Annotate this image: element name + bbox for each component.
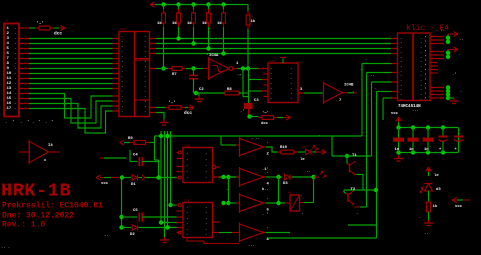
svg-text:IC5: IC5: [269, 60, 275, 63]
svg-text:.: .: [121, 45, 123, 49]
svg-text:1k: 1k: [217, 21, 222, 26]
svg-text:.: .: [290, 77, 292, 81]
svg-text:..: ..: [306, 170, 311, 174]
svg-text:vcc: vcc: [391, 112, 399, 116]
svg-text:.: .: [270, 87, 272, 91]
svg-text:.: .: [460, 90, 462, 94]
svg-text:': ': [51, 120, 53, 125]
svg-text:.: .: [121, 85, 123, 89]
svg-text:IC4A: IC4A: [209, 54, 219, 58]
svg-text:.: .: [205, 152, 207, 156]
svg-text:.: .: [205, 158, 207, 162]
svg-text:.: .: [14, 67, 16, 71]
svg-text:..: ..: [459, 38, 464, 42]
svg-text:1k: 1k: [157, 21, 162, 26]
svg-text:.: .: [121, 60, 123, 64]
svg-text:.: .: [14, 32, 16, 36]
svg-text:1k: 1k: [172, 21, 177, 26]
svg-text:.: .: [45, 121, 47, 125]
svg-text:D1: D1: [131, 183, 136, 187]
svg-text:.: .: [14, 27, 16, 31]
svg-text:. ': . ': [420, 83, 427, 88]
svg-text:D2: D2: [130, 233, 135, 237]
svg-text:11: 11: [7, 77, 12, 81]
svg-text:..: ..: [370, 74, 375, 78]
svg-text:.: .: [400, 98, 402, 102]
svg-text:.: .: [144, 90, 146, 94]
svg-text:1n: 1n: [395, 148, 400, 152]
svg-text:.: .: [290, 92, 292, 96]
svg-text:R7: R7: [172, 73, 177, 77]
svg-text:15: 15: [7, 97, 12, 101]
svg-text:.1': .1': [262, 167, 269, 172]
svg-text:.: .: [121, 75, 123, 79]
svg-text:vcc: vcc: [101, 182, 109, 186]
svg-text:.: .: [418, 216, 420, 220]
svg-text:.: .: [186, 152, 188, 156]
svg-text:R9: R9: [128, 137, 133, 141]
svg-text:.: .: [400, 46, 402, 50]
svg-text:...: ...: [412, 109, 419, 113]
svg-text:. ': . ': [420, 78, 427, 83]
svg-text:.: .: [144, 75, 146, 79]
svg-text:.': .': [452, 72, 457, 77]
svg-text:1k: 1k: [251, 19, 256, 24]
svg-text:.: .: [144, 110, 146, 114]
svg-text:.: .: [267, 226, 269, 230]
svg-text:.: .: [270, 92, 272, 96]
svg-text:.: .: [290, 97, 292, 101]
svg-text:. ..: . ..: [251, 137, 260, 141]
svg-text:. ': . ': [420, 54, 427, 59]
svg-text:.: .: [186, 228, 188, 232]
svg-text:.: .: [270, 97, 272, 101]
svg-text:.: .: [144, 55, 146, 59]
svg-text:I4: I4: [48, 144, 53, 148]
svg-text:.: .: [14, 92, 16, 96]
svg-text:.: .: [205, 217, 207, 221]
svg-text:. ': . ': [420, 73, 427, 78]
svg-text:. ': . ': [420, 45, 427, 50]
svg-text:.: .: [290, 67, 292, 71]
svg-text:T2: T2: [351, 188, 356, 192]
svg-text:.: .: [14, 42, 16, 46]
svg-text:.: .: [318, 134, 320, 138]
svg-text:.: .: [270, 67, 272, 71]
svg-text:.: .: [121, 110, 123, 114]
svg-text:vcc: vcc: [455, 205, 463, 209]
svg-text:.: .: [121, 40, 123, 44]
svg-text:.: .: [121, 95, 123, 99]
svg-text:.: .: [121, 100, 123, 104]
svg-text:.: .: [121, 50, 123, 54]
svg-text:.: .: [14, 97, 16, 101]
svg-text:.: .: [400, 55, 402, 59]
svg-text:.: .: [186, 158, 188, 162]
svg-text:.,: .,: [237, 73, 242, 77]
svg-text:. ': . ': [420, 87, 427, 92]
svg-text:12: 12: [7, 82, 12, 86]
svg-text:C4: C4: [133, 154, 138, 158]
svg-text:': ': [38, 120, 40, 125]
svg-text:.. .: .. .: [1, 246, 10, 250]
svg-text:.: .: [121, 90, 123, 94]
svg-text:.: .: [270, 77, 272, 81]
svg-text:Dne: 30.12.2022: Dne: 30.12.2022: [2, 212, 74, 221]
svg-text:.: .: [32, 121, 34, 125]
svg-text:. ': . ': [262, 212, 269, 217]
svg-text:.: .: [186, 170, 188, 174]
svg-text:. ': . ': [420, 64, 427, 69]
svg-text:.: .: [374, 87, 376, 91]
svg-text:R10: R10: [280, 146, 288, 150]
svg-text:. ': . ': [420, 68, 427, 73]
svg-text:.: .: [14, 77, 16, 81]
svg-text:.: .: [400, 65, 402, 69]
svg-text:.: .: [270, 82, 272, 86]
svg-text:. ': . ': [420, 40, 427, 45]
svg-text:.: .: [186, 206, 188, 210]
svg-text:D3: D3: [283, 182, 288, 186]
svg-text:.: .: [400, 60, 402, 64]
svg-text:.': .': [240, 109, 245, 114]
svg-text:C3: C3: [254, 99, 259, 103]
svg-text:.: .: [14, 57, 16, 61]
svg-text:10: 10: [7, 72, 12, 76]
svg-text:R8: R8: [227, 88, 232, 92]
svg-text:.: .: [205, 222, 207, 226]
svg-text:.: .: [144, 95, 146, 99]
svg-text:. ': . ': [420, 59, 427, 64]
svg-text:. ': . ': [420, 97, 427, 102]
svg-text:K1: K1: [288, 192, 292, 195]
svg-text:.: .: [400, 37, 402, 41]
svg-text:.: .: [186, 233, 188, 237]
svg-text:.: .: [14, 62, 16, 66]
svg-text:dcc: dcc: [54, 31, 62, 37]
svg-text:.: .: [121, 80, 123, 84]
svg-text:dcc: dcc: [184, 110, 192, 116]
svg-text:IC1: IC1: [184, 145, 190, 148]
svg-text:K1: K1: [302, 146, 306, 149]
svg-text:.: .: [144, 85, 146, 89]
svg-text:C2: C2: [199, 88, 204, 92]
svg-text:.: .: [121, 70, 123, 74]
svg-text:1k: 1k: [202, 21, 207, 26]
svg-text:': ': [206, 53, 208, 58]
svg-text:.: .: [400, 88, 402, 92]
svg-text:.: .: [14, 82, 16, 86]
svg-text:.: .: [121, 105, 123, 109]
svg-text:.: .: [14, 102, 16, 106]
svg-text:.: .: [186, 211, 188, 215]
svg-text:.: .: [14, 47, 16, 51]
svg-text:le: le: [434, 173, 439, 178]
svg-text:.: .: [205, 228, 207, 232]
svg-text:. ..: . ..: [436, 29, 445, 33]
svg-text:T1: T1: [352, 154, 357, 158]
svg-text:IC2: IC2: [120, 28, 126, 31]
svg-text:'-': '-': [262, 111, 269, 116]
svg-text:Rev.: 1.0: Rev.: 1.0: [2, 221, 45, 230]
svg-text:.: .: [144, 40, 146, 44]
svg-text:.: .: [400, 69, 402, 73]
svg-text:'-': '-': [168, 100, 176, 106]
svg-text:.: .: [356, 212, 358, 216]
svg-text:.: .: [14, 52, 16, 56]
svg-text:.: .: [270, 72, 272, 76]
svg-text:.: .: [144, 65, 146, 69]
svg-text:.: .: [144, 50, 146, 54]
svg-text:.: .: [144, 105, 146, 109]
svg-text:. ': . ': [420, 92, 427, 97]
svg-text:.: .: [400, 51, 402, 55]
svg-text:.: .: [400, 41, 402, 45]
svg-text:.: .: [205, 206, 207, 210]
svg-text:C5: C5: [133, 209, 138, 213]
svg-text:.: .: [400, 74, 402, 78]
svg-text:'-': '-': [36, 21, 44, 27]
svg-text:.: .: [186, 222, 188, 226]
svg-text:.: .: [144, 60, 146, 64]
svg-text:.: .: [186, 164, 188, 168]
svg-text:.: .: [14, 72, 16, 76]
svg-text:.: .: [144, 100, 146, 104]
svg-text:.: .: [365, 58, 367, 62]
svg-text:..: ..: [104, 234, 109, 238]
svg-text:13: 13: [7, 87, 12, 91]
svg-text:.: .: [302, 212, 304, 216]
svg-text:.: .: [458, 53, 460, 57]
svg-text:1k: 1k: [187, 21, 192, 26]
svg-text:': ': [27, 120, 29, 125]
svg-text:.: .: [267, 197, 269, 201]
svg-text:.: .: [290, 72, 292, 76]
svg-text:.: .: [186, 217, 188, 221]
svg-text:. ': . ': [420, 50, 427, 55]
svg-text:.: .: [400, 84, 402, 88]
svg-text:.: .: [205, 233, 207, 237]
svg-text:1n: 1n: [424, 148, 429, 152]
svg-text:...: ...: [248, 244, 255, 248]
svg-text:le: le: [300, 157, 305, 162]
svg-text:.: .: [267, 141, 269, 145]
svg-text:': ': [12, 120, 14, 125]
svg-text:X1: X1: [5, 20, 9, 23]
svg-text:. ': . ': [420, 36, 427, 41]
svg-text:.: .: [226, 188, 228, 192]
svg-text:dcc: dcc: [261, 121, 269, 126]
svg-text:.: .: [205, 164, 207, 168]
svg-text:HRK-1B: HRK-1B: [1, 181, 71, 202]
svg-text:.: .: [205, 176, 207, 180]
svg-text:17: 17: [7, 107, 12, 111]
svg-text:IC3: IC3: [184, 200, 190, 203]
svg-text:..: ..: [424, 232, 429, 236]
svg-text:.: .: [144, 80, 146, 84]
svg-text:1n: 1n: [409, 148, 414, 152]
svg-text:.: .: [352, 90, 354, 94]
svg-text:.: .: [144, 45, 146, 49]
svg-text:.: .: [121, 35, 123, 39]
svg-text:.: .: [5, 121, 7, 125]
svg-text:.: .: [186, 176, 188, 180]
svg-text:.: .: [400, 79, 402, 83]
svg-text:.: .: [144, 70, 146, 74]
svg-text:.: .: [14, 37, 16, 41]
svg-text:.: .: [121, 55, 123, 59]
svg-text:.: .: [205, 170, 207, 174]
svg-text:.: .: [400, 93, 402, 97]
svg-text:IC4B: IC4B: [344, 84, 354, 88]
svg-text:.: .: [14, 107, 16, 111]
svg-text:14: 14: [7, 92, 12, 96]
svg-text:Prekreslil: EC1040.01: Prekreslil: EC1040.01: [2, 202, 103, 211]
svg-text:.: .: [290, 82, 292, 86]
svg-text:.: .: [290, 87, 292, 91]
svg-text:.: .: [14, 87, 16, 91]
svg-text:k..: k..: [262, 187, 269, 192]
svg-text:d3: d3: [436, 187, 441, 192]
svg-text:.: .: [300, 194, 302, 198]
svg-text:.: .: [205, 211, 207, 215]
svg-text:.: .: [144, 35, 146, 39]
svg-text:.: .: [121, 65, 123, 69]
svg-text:16: 16: [7, 102, 12, 106]
svg-text:1k: 1k: [433, 204, 438, 209]
svg-text:.: .: [20, 121, 22, 125]
